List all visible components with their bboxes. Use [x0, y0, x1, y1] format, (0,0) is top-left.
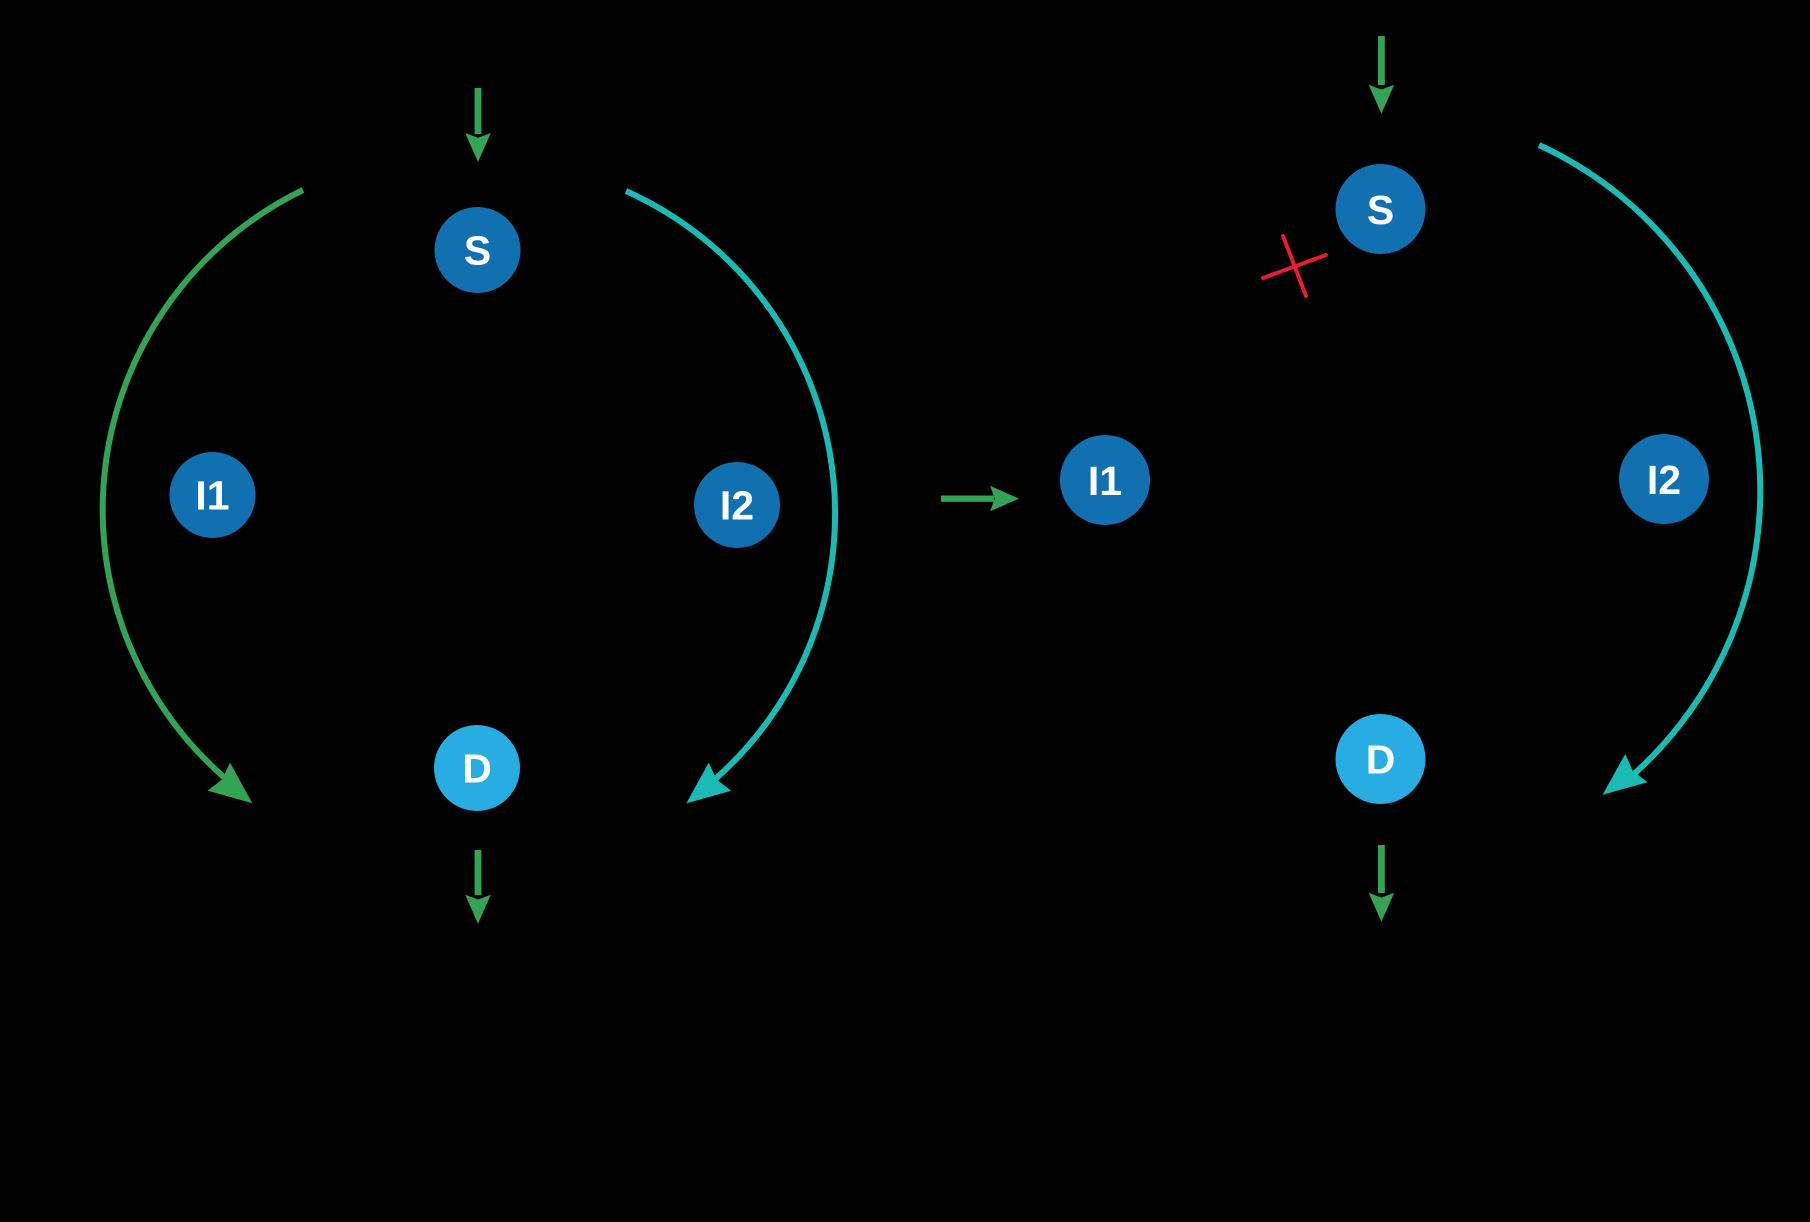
svg-text:D: D: [1366, 737, 1396, 783]
node I1 (right): [1060, 435, 1150, 525]
node D (right): [1336, 714, 1426, 804]
wire: green entry arrow above S (left): [465, 88, 491, 162]
svg-text:D: D: [462, 746, 492, 792]
node I2 (right): [1619, 434, 1709, 524]
wire: teal curved arc S to bottom-right (left diagram): [626, 191, 835, 817]
svg-text:S: S: [464, 228, 491, 274]
svg-text:S: S: [1367, 187, 1394, 233]
blocked transmission: red X: [1263, 236, 1326, 296]
svg-text:I2: I2: [1647, 457, 1681, 503]
svg-text:I2: I2: [720, 483, 754, 529]
wire: green arrow between diagrams: [941, 486, 1019, 512]
wire: green curved arc S to bottom-left: [103, 190, 303, 817]
svg-text:I1: I1: [195, 473, 229, 519]
wire: green exit arrow below D (right): [1369, 845, 1395, 922]
wire: green exit arrow below D (left): [465, 850, 491, 924]
node S (right): [1336, 164, 1426, 254]
node D (left): death circle: [434, 725, 520, 811]
wire: teal curved arc S to bottom-right (right diagram): [1539, 145, 1760, 809]
node S (left): source circle: [435, 207, 521, 293]
svg-text:I1: I1: [1088, 458, 1122, 504]
node I2 (left): [694, 462, 780, 548]
wire: green entry arrow above S (right): [1369, 36, 1395, 114]
node I1 (left): [170, 452, 256, 538]
